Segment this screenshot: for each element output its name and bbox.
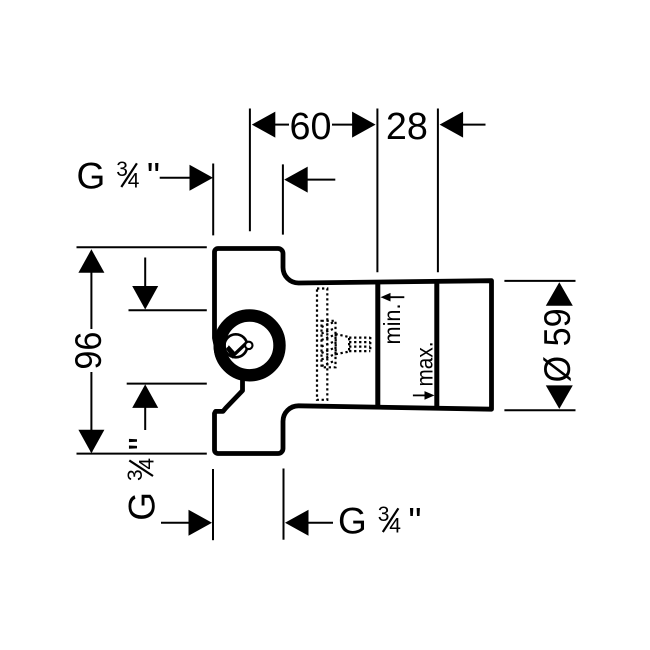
label G 3/4 top	[77, 156, 161, 197]
dotted funnel	[336, 334, 349, 354]
bottom right arrow	[285, 510, 309, 536]
dotted spigot threads	[349, 337, 370, 339]
label G 3/4 left rotated	[122, 437, 163, 521]
svg-text:4: 4	[128, 170, 140, 193]
svg-text:min.: min.	[379, 304, 405, 345]
extension line min	[376, 109, 378, 273]
extension line port top	[129, 309, 207, 311]
svg-text:G: G	[77, 156, 106, 197]
screw slash	[227, 343, 246, 356]
port bottom arrow	[132, 384, 158, 408]
extension line center axis	[249, 109, 251, 232]
screw pin	[245, 342, 252, 349]
screw wedge	[226, 345, 236, 357]
svg-text:": "	[147, 156, 160, 197]
svg-text:G: G	[338, 501, 367, 542]
svg-text:max.: max.	[412, 342, 438, 387]
max arrow	[413, 394, 427, 396]
extension line plate right top	[282, 164, 284, 234]
svg-text:Ø 59: Ø 59	[537, 308, 578, 382]
valve body outline	[215, 249, 492, 454]
extension line dia top	[504, 280, 575, 282]
extension line body left top	[212, 164, 214, 236]
extension line dia bottom	[504, 409, 575, 411]
plate right arrow	[284, 167, 308, 193]
port top arrow	[144, 258, 146, 288]
svg-text:60: 60	[290, 106, 332, 148]
dia top arrow	[546, 282, 573, 306]
extension line body top left	[77, 246, 207, 248]
extension line body bottom left	[77, 453, 207, 455]
max depth line	[434, 281, 439, 409]
dia bottom arrow	[546, 385, 573, 409]
extension line bottom left port	[212, 469, 214, 540]
dotted hatch	[322, 322, 336, 328]
dim 96 bottom arrow	[90, 372, 92, 452]
label G 3/4 bottom	[338, 501, 422, 542]
svg-text:": "	[122, 437, 163, 450]
svg-text:G: G	[122, 492, 163, 521]
extension line port bottom	[127, 383, 207, 385]
extension line bottom right port	[283, 469, 285, 540]
ring (valve flange)	[220, 316, 280, 376]
min arrow	[388, 296, 404, 298]
dotted hub rect	[322, 321, 336, 368]
bottom left arrow	[161, 522, 192, 524]
svg-text:4: 4	[389, 515, 401, 538]
extension line max	[437, 109, 439, 273]
dim 60 left arrow	[252, 112, 275, 138]
label G 3/4 top arrow	[160, 177, 191, 179]
cartridge dotted group	[317, 289, 370, 400]
svg-text:96: 96	[68, 332, 109, 370]
svg-text:28: 28	[386, 106, 428, 148]
dim 96 top arrow	[78, 249, 104, 272]
dim 60 right arrow	[332, 124, 353, 126]
svg-text:": "	[408, 501, 421, 542]
min depth line	[375, 281, 380, 407]
svg-text:4: 4	[136, 458, 159, 470]
dim 28 arrow	[440, 112, 464, 138]
dotted flange rect	[317, 289, 327, 400]
screw circle	[224, 334, 247, 357]
